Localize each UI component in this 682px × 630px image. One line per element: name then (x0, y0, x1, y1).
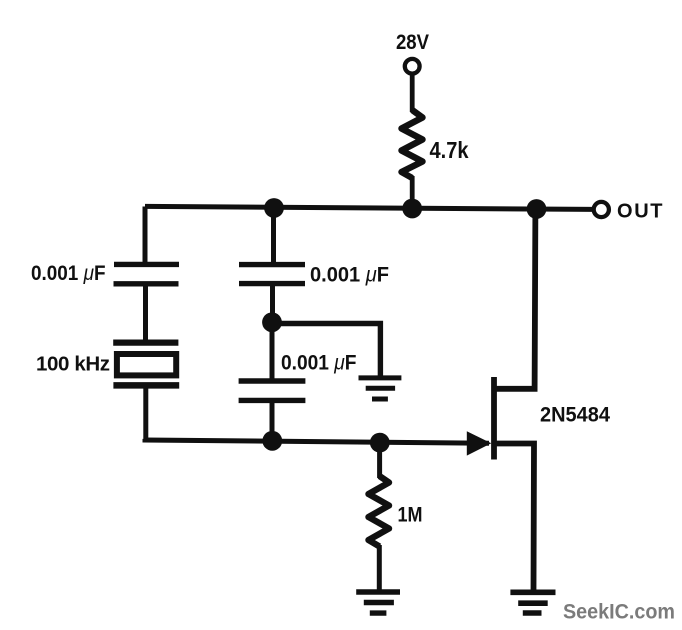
wire R2 to GND2 (377, 545, 382, 590)
crystal Y1 (113, 343, 179, 386)
svg-text:1M: 1M (398, 504, 423, 527)
wire C3 to bottom rail (270, 400, 275, 441)
wire 28V terminal to R1 (410, 74, 415, 113)
transistor Q1 gate arrow (467, 431, 492, 455)
capacitor C3 0.001 uF (239, 381, 306, 400)
wire middle node down to C3 (270, 322, 275, 382)
svg-text:SeekIC.com: SeekIC.com (563, 600, 675, 623)
svg-text:28V: 28V (396, 31, 429, 54)
node junction C3 / bottom rail (262, 431, 282, 451)
capacitor C2 0.001 uF (239, 265, 305, 284)
svg-text:4.7k: 4.7k (430, 137, 469, 163)
power terminal 28V (405, 59, 420, 74)
wire Q1 source down to GND3 (494, 444, 534, 591)
wire Q1 drain to top rail (494, 209, 535, 389)
wire middle node to GND1 (272, 324, 380, 378)
node junction C2 / C3 / bypass (262, 312, 282, 332)
resistor R1 4.7k (402, 110, 423, 178)
node junction drain / top rail (527, 199, 547, 219)
node junction middle branch / top rail (264, 198, 284, 218)
output terminal (594, 202, 609, 217)
wire bottom rail (gate rail) (145, 439, 489, 443)
wire crystal to bottom rail (143, 385, 148, 441)
transistor Q1 2N5484 channel bar (491, 377, 497, 460)
capacitor C1 0.001 uF (114, 264, 180, 283)
wire middle branch top rail to C2 (271, 207, 276, 267)
svg-text:OUT: OUT (617, 201, 663, 223)
ground GND2 (356, 592, 400, 613)
svg-text:0.001 μF: 0.001 μF (310, 264, 389, 287)
node junction R1 / top rail (402, 199, 422, 219)
wire R1 to top rail (410, 176, 415, 209)
wire bottom rail node to R2 (377, 443, 382, 478)
ground GND3 (510, 592, 555, 613)
svg-text:2N5484: 2N5484 (540, 403, 610, 426)
svg-text:100 kHz: 100 kHz (36, 353, 110, 376)
wire top rail (145, 206, 592, 209)
wire left branch top rail corner to C1 (143, 207, 148, 267)
node junction R2 / bottom rail (370, 433, 390, 453)
wire C2 to middle node (270, 284, 275, 324)
ground GND1 (359, 378, 402, 399)
wire C1 to crystal Y1 (143, 284, 148, 342)
svg-text:0.001 μF: 0.001 μF (31, 262, 106, 285)
resistor R2 1M (369, 476, 390, 547)
svg-text:0.001 μF: 0.001 μF (281, 352, 357, 375)
